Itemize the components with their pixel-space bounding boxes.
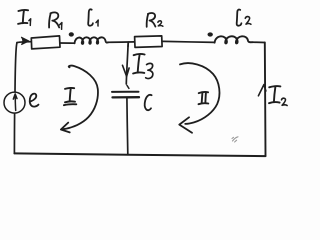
coupling dot L1 bbox=[69, 32, 74, 36]
capacitor tick bbox=[127, 85, 129, 88]
label I3 bbox=[133, 54, 153, 78]
wire R2 to L2 bbox=[162, 41, 215, 42]
loop arrow I bbox=[64, 66, 98, 130]
current arrow I3 bbox=[123, 65, 130, 76]
node junction top bbox=[127, 42, 129, 46]
label loop I bbox=[64, 88, 76, 105]
resistor R1 bbox=[31, 36, 60, 49]
label L1 bbox=[88, 9, 98, 26]
wire left vertical lower bbox=[13, 113, 15, 153]
label R1 bbox=[49, 12, 62, 29]
wire R1 to L1 bbox=[60, 42, 75, 44]
current arrow I1 bbox=[21, 37, 29, 44]
source arrow bbox=[13, 94, 17, 111]
inductor L2 bbox=[215, 36, 253, 43]
voltage source e bbox=[4, 92, 25, 113]
label R2 bbox=[147, 13, 163, 27]
wire middle branch upper with I3 shaft bbox=[126, 42, 128, 84]
coupling dot L2 bbox=[208, 32, 213, 36]
wire bottom bbox=[14, 153, 265, 156]
label I2 bbox=[269, 86, 287, 105]
capacitor C bottom plate bbox=[113, 96, 140, 99]
wire top-left horizontal bbox=[17, 41, 31, 44]
smudge mark bbox=[232, 137, 238, 142]
resistor R2 bbox=[135, 36, 163, 48]
label I1 bbox=[18, 10, 31, 25]
wire left vertical upper bbox=[15, 43, 17, 92]
wire L2 to top-right corner bbox=[253, 41, 265, 43]
current arrow I2 bbox=[258, 85, 266, 96]
loop arrow II bbox=[180, 63, 219, 124]
loop arrow II head bbox=[179, 117, 192, 133]
wire middle branch lower bbox=[126, 98, 129, 154]
label loop II bbox=[199, 92, 209, 104]
capacitor C top plate bbox=[112, 91, 139, 93]
inductor L1 bbox=[75, 37, 109, 44]
label L2 bbox=[237, 10, 251, 26]
loop arrow I head bbox=[61, 123, 70, 133]
label C bbox=[145, 95, 152, 110]
label e bbox=[30, 94, 39, 107]
wire L1 to junction to R2 bbox=[108, 41, 134, 43]
wire right vertical bbox=[264, 43, 267, 156]
